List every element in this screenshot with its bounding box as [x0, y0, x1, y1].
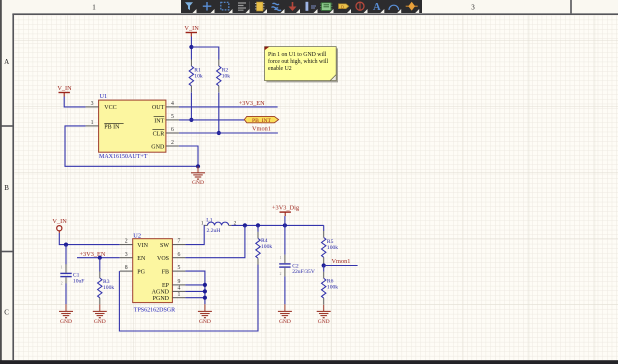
wire — [185, 297, 205, 299]
svg-text:A: A — [4, 58, 9, 66]
wire — [65, 245, 67, 265]
wire — [185, 225, 204, 244]
svg-text:V_IN: V_IN — [184, 25, 199, 32]
wire — [231, 224, 323, 226]
svg-text:V_IN: V_IN — [52, 218, 67, 225]
svg-text:10k: 10k — [194, 74, 203, 80]
capacitor C1 — [60, 264, 84, 286]
svg-text:force out high, which will: force out high, which will — [268, 58, 328, 65]
svg-text:1: 1 — [61, 265, 63, 269]
icon cross — [203, 2, 212, 11]
icon no-erc — [356, 2, 364, 10]
pin 6 VOS — [157, 252, 185, 262]
svg-text:AGND: AGND — [152, 290, 170, 296]
power port V_IN — [184, 25, 199, 37]
svg-text:6: 6 — [177, 252, 180, 258]
svg-text:1: 1 — [280, 256, 282, 260]
ground — [198, 304, 212, 325]
junction — [203, 289, 207, 293]
svg-text:VOS: VOS — [157, 256, 169, 262]
resistor R6 — [322, 272, 339, 305]
capacitor C2 — [279, 255, 315, 277]
svg-text:8: 8 — [125, 265, 128, 271]
wire — [179, 146, 198, 166]
wire — [284, 216, 286, 255]
resistor R5 — [322, 231, 339, 264]
ruler zone divider top — [570, 0, 572, 13]
svg-text:MAX16150AUT+T: MAX16150AUT+T — [99, 154, 148, 160]
svg-text:2: 2 — [171, 140, 174, 146]
icon filter — [185, 2, 193, 10]
svg-text:Pin 1 on U1 to GND will: Pin 1 on U1 to GND will — [268, 52, 327, 58]
junction — [203, 296, 207, 300]
ground — [191, 166, 205, 186]
svg-text:100k: 100k — [327, 285, 338, 291]
wire — [190, 93, 192, 120]
inductor L1 — [201, 217, 237, 234]
note — [265, 47, 338, 83]
wire — [185, 225, 245, 257]
pin 3 VCC — [86, 101, 117, 111]
svg-text:3: 3 — [471, 4, 475, 12]
junction — [283, 223, 287, 227]
wire — [323, 264, 325, 266]
resistor R1 — [189, 60, 203, 93]
svg-text:GND: GND — [192, 180, 204, 186]
app bottom edge — [0, 360, 618, 364]
ground — [93, 304, 107, 325]
svg-text:SW: SW — [160, 243, 169, 249]
ground — [278, 304, 292, 325]
icon component — [257, 2, 264, 11]
junction — [243, 223, 247, 227]
pin 3 EN — [120, 252, 146, 262]
ground — [317, 305, 331, 325]
svg-text:7: 7 — [177, 239, 180, 245]
svg-text:Vmon1: Vmon1 — [332, 258, 351, 265]
svg-text:FB: FB — [162, 269, 169, 275]
svg-text:22uF/35V: 22uF/35V — [292, 269, 315, 275]
svg-text:2: 2 — [61, 281, 63, 285]
svg-text:3: 3 — [91, 101, 94, 107]
svg-text:OUT: OUT — [152, 105, 165, 111]
svg-text:A: A — [373, 2, 381, 13]
svg-text:GND: GND — [279, 319, 291, 325]
svg-text:2.2uH: 2.2uH — [207, 228, 221, 234]
svg-text:GND: GND — [199, 319, 211, 325]
toolbar — [181, 0, 422, 13]
svg-text:6: 6 — [171, 127, 174, 133]
component U1 MAX16150 — [99, 93, 166, 160]
ruler zone divider B/C — [0, 251, 13, 253]
wire — [179, 132, 278, 134]
junction — [64, 243, 68, 247]
svg-text:Vmon1: Vmon1 — [252, 126, 271, 133]
svg-text:TPS62162DSGR: TPS62162DSGR — [134, 307, 175, 313]
svg-text:5: 5 — [177, 265, 180, 271]
icon wire — [272, 3, 282, 10]
wire — [119, 265, 258, 332]
pin 2 GND — [151, 140, 179, 150]
wire — [64, 97, 85, 107]
icon power port — [292, 2, 294, 8]
port PB_INT — [244, 116, 278, 124]
svg-text:+3V3_EN: +3V3_EN — [80, 251, 106, 258]
svg-text:5: 5 — [171, 114, 174, 120]
power port V_IN (circle) — [52, 218, 67, 233]
junction — [322, 263, 326, 267]
junction — [98, 256, 102, 260]
power port V_IN — [57, 85, 72, 97]
pin 9 EP — [162, 279, 185, 289]
svg-text:GND: GND — [318, 319, 330, 325]
svg-text:INT: INT — [154, 118, 164, 124]
ruler zone divider A/B — [0, 125, 13, 127]
icon sheet symbol — [322, 3, 332, 11]
svg-text:100k: 100k — [103, 285, 114, 291]
svg-text:EN: EN — [137, 256, 146, 262]
svg-text:100k: 100k — [327, 245, 338, 251]
junction — [196, 164, 200, 168]
wire — [59, 233, 119, 245]
svg-text:3: 3 — [125, 252, 128, 258]
pin 1 PB IN — [86, 120, 124, 130]
pin 7 SW — [160, 239, 185, 249]
pin 5 FB — [162, 265, 186, 275]
wire — [323, 225, 325, 231]
power port +3V3_Dig — [272, 205, 300, 217]
svg-text:10uF: 10uF — [73, 278, 85, 284]
icon polygon — [406, 5, 418, 7]
svg-text:1: 1 — [177, 292, 180, 298]
junction — [189, 45, 193, 49]
svg-text:CLR: CLR — [153, 132, 165, 138]
svg-text:PB_INT: PB_INT — [252, 118, 272, 124]
resistor R3 — [98, 272, 115, 305]
svg-text:PGND: PGND — [153, 296, 170, 302]
svg-text:PB IN: PB IN — [104, 124, 120, 130]
svg-text:enable U2: enable U2 — [268, 66, 292, 72]
svg-text:L1: L1 — [206, 217, 212, 223]
svg-text:+3V3_EN: +3V3_EN — [239, 100, 265, 107]
svg-text:+3V3_Dig: +3V3_Dig — [272, 205, 300, 212]
icon port — [339, 4, 349, 9]
svg-text:EP: EP — [162, 283, 170, 289]
wire — [179, 106, 278, 108]
wire — [77, 257, 120, 259]
svg-text:4: 4 — [171, 101, 174, 107]
svg-text:100k: 100k — [261, 244, 272, 250]
dropdown triangles — [193, 9, 420, 13]
wire — [190, 37, 192, 60]
wire — [65, 283, 67, 304]
svg-text:GND: GND — [151, 145, 165, 151]
pin 4 AGND — [152, 286, 186, 296]
wire — [185, 271, 205, 304]
svg-text:2: 2 — [125, 239, 128, 245]
junction — [189, 118, 193, 122]
junction — [256, 223, 260, 227]
svg-text:U1: U1 — [100, 93, 108, 100]
svg-text:PG: PG — [137, 269, 145, 275]
resistor R4 — [256, 232, 273, 265]
svg-text:2: 2 — [280, 272, 282, 276]
junction — [203, 283, 207, 287]
wire — [191, 47, 218, 60]
svg-text:1: 1 — [92, 4, 96, 12]
wire — [179, 119, 244, 121]
pin 6 CLR — [152, 127, 179, 137]
svg-text:GND: GND — [94, 319, 106, 325]
svg-text:VIN: VIN — [137, 243, 148, 249]
wire — [65, 126, 198, 166]
svg-text:VCC: VCC — [104, 105, 116, 111]
wire — [99, 258, 101, 272]
svg-text:1: 1 — [201, 220, 204, 226]
svg-text:B: B — [4, 184, 9, 192]
pin 5 INT — [154, 114, 179, 124]
svg-text:4: 4 — [177, 286, 180, 292]
ground — [59, 304, 73, 325]
icon selection rect — [221, 2, 229, 10]
svg-text:1: 1 — [91, 120, 94, 126]
wire — [257, 225, 259, 232]
app left edge — [0, 0, 2, 364]
wire — [218, 93, 220, 134]
pin 8 PG — [120, 265, 146, 275]
svg-text:GND: GND — [60, 319, 72, 325]
pin 2 VIN — [120, 239, 149, 249]
svg-text:9: 9 — [177, 279, 180, 285]
wire — [284, 276, 286, 304]
wire — [324, 265, 358, 267]
component U2 TPS62162 — [133, 233, 175, 314]
wire — [323, 266, 325, 272]
icon arc — [389, 5, 399, 10]
svg-text:V_IN: V_IN — [57, 85, 72, 92]
resistor R2 — [217, 60, 231, 93]
svg-text:10k: 10k — [222, 74, 231, 80]
wire — [185, 284, 205, 286]
icon align — [238, 3, 246, 10]
icon net label — [306, 2, 309, 11]
wire — [185, 290, 205, 292]
pin 1 PGND — [153, 292, 186, 302]
junction — [217, 131, 221, 135]
svg-text:C: C — [4, 309, 9, 317]
sheet border lines — [12, 14, 14, 360]
pin 4 OUT — [152, 101, 179, 111]
svg-text:U2: U2 — [133, 233, 141, 240]
